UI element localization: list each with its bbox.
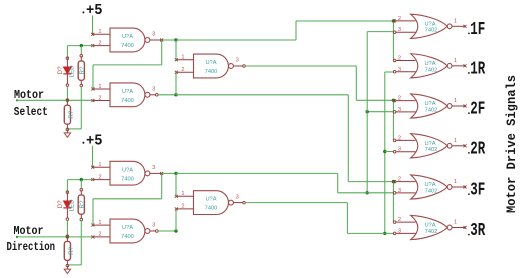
output net label 1F: [468, 20, 485, 40]
nor-gate U3A pin3 stub: [393, 31, 415, 34]
wire C-out to NOR3 pin2: [356, 99, 393, 101]
nand-gate U2B (mid-left lower) output bubble: [145, 229, 150, 234]
svg-text:1: 1: [181, 55, 184, 61]
node Motor Drive Signals vertical label: [504, 75, 519, 213]
nand-gate U2B (mid-left lower) body: [110, 219, 145, 243]
svg-text:U?A: U?A: [122, 89, 133, 95]
nand-gate U1A (top-left) body: [110, 28, 145, 52]
svg-text:7400: 7400: [121, 43, 134, 49]
nand-gate U1B (mid-left upper) pin1 stub: [91, 88, 110, 91]
wire: [175, 209, 177, 231]
nand-gate U2A (bottom-left) output bubble: [145, 171, 150, 176]
+5 supply P1 label: [82, 3, 102, 19]
nor-gate U3D value 7402: [425, 147, 438, 153]
nor-gate U3F pin2 stub: [393, 221, 415, 224]
wire: [80, 220, 82, 265]
wire: [66, 46, 68, 59]
nor-gate U3C output bubble: [447, 104, 452, 109]
nor-gate U3A name U?A: [424, 21, 435, 27]
nand-gate U2C (center lower) value 7400: [205, 206, 218, 212]
wire: [92, 199, 94, 225]
nand-gate U2A (bottom-left) value 7400: [121, 176, 134, 182]
resistor R1 body: [78, 61, 84, 80]
nor-gate U3F output bubble: [447, 225, 452, 230]
nor-gate U3B body: [411, 54, 448, 78]
nand-gate U2B (mid-left lower) value 7400: [121, 234, 134, 240]
svg-text:1: 1: [454, 138, 457, 144]
nor-gate U3F pin3 stub: [393, 232, 415, 235]
wire: [162, 39, 176, 41]
wire: [158, 94, 176, 96]
svg-text:3R: 3R: [470, 221, 485, 241]
svg-text:1: 1: [454, 179, 457, 185]
nor-gate U3A value 7402: [425, 28, 438, 34]
wire: [80, 46, 82, 56]
junction: [66, 235, 69, 238]
wire D-out to NOR5 pin3: [338, 192, 394, 194]
svg-text:1F: 1F: [470, 20, 485, 40]
svg-text:1: 1: [98, 84, 101, 90]
svg-text:U?A: U?A: [424, 21, 435, 27]
nand-gate U1B (mid-left upper) body: [110, 83, 145, 107]
output net label 3R: [468, 221, 485, 241]
resistor R4 value R?: [68, 246, 75, 254]
nand-gate U1B (mid-left upper) output bubble: [145, 92, 150, 97]
nand-gate U1B (mid-left upper) value 7400: [121, 98, 134, 104]
nand-gate U1A (top-left) pin labels: [98, 29, 155, 46]
svg-text:3: 3: [236, 194, 239, 200]
wire F-out vertical bus: [384, 72, 386, 233]
LED D2 triangle and cathode bar: [63, 201, 71, 208]
nor-gate U3F pin labels: [398, 217, 457, 234]
svg-text:2: 2: [98, 40, 101, 46]
nor-gate U3A body: [411, 14, 448, 38]
svg-text:3: 3: [398, 188, 401, 194]
wire: [66, 180, 68, 193]
resistor R2 value R?: [68, 110, 75, 118]
wire: [66, 220, 68, 237]
nor-gate U3A pin labels: [398, 16, 457, 33]
+5 supply P2 pin wire: [92, 146, 94, 167]
svg-text:3: 3: [152, 165, 155, 171]
wire NOR5 input tie: [392, 182, 394, 193]
junction: [383, 150, 386, 153]
wire NOR5 tie extension down to NOR6 pin2: [392, 193, 394, 222]
nor-gate U3E pin labels: [398, 177, 457, 194]
svg-text:1: 1: [454, 98, 457, 104]
svg-text:2: 2: [398, 177, 401, 183]
nand-gate U1A (top-left) pin1 stub: [91, 33, 110, 36]
nor-gate U3F name U?A: [424, 223, 435, 229]
svg-text:Motor: Motor: [14, 88, 44, 102]
svg-text:U?A: U?A: [122, 34, 133, 40]
nand-gate U2C (center lower) name U?A: [205, 197, 216, 203]
nor-gate U3B output stub pin 1: [452, 64, 467, 67]
junction: [80, 178, 83, 181]
wire: [162, 172, 176, 174]
svg-text:2: 2: [98, 95, 101, 101]
wire: [175, 173, 177, 196]
nand-gate U2A (bottom-left) name U?A: [122, 167, 133, 173]
wire: [66, 86, 68, 100]
wire: [80, 86, 82, 129]
nor-gate U3A output stub pin 1: [452, 25, 467, 28]
nand-gate U1B (mid-left upper) name U?A: [122, 89, 133, 95]
svg-text:3: 3: [236, 58, 239, 64]
svg-text:D?: D?: [57, 66, 64, 74]
wire: [158, 230, 176, 232]
wire: [67, 45, 92, 47]
nand-gate U2A (bottom-left) pin2 stub: [91, 178, 110, 181]
svg-text:1: 1: [98, 220, 101, 226]
LED D2 pins: [66, 191, 69, 221]
nor-gate U3E value 7402: [425, 188, 438, 194]
svg-text:R?: R?: [79, 200, 86, 208]
output net label 1R: [468, 60, 485, 80]
svg-text:2: 2: [398, 217, 401, 223]
nand-gate U1A (top-left) output stub pin 3: [150, 39, 163, 42]
nand-gate U2C (center lower) body: [194, 191, 229, 215]
nor-gate U3E output stub pin 1: [452, 186, 467, 189]
svg-text:7402: 7402: [425, 147, 438, 153]
wire B-out vertical drop: [347, 95, 349, 182]
svg-text:LED: LED: [69, 65, 76, 78]
nand-gate U1C (center upper) pin2 stub: [175, 71, 194, 74]
nand-gate U2C (center lower) pin labels: [181, 191, 238, 210]
nand-gate U1B (mid-left upper) pin2 stub: [91, 99, 110, 102]
wire NOR3 pin3 horizontal: [367, 111, 393, 113]
nand-gate U1C (center upper) body: [194, 54, 229, 78]
wire: [93, 64, 162, 66]
nand-gate U1C (center upper) value 7400: [205, 69, 218, 75]
wire A-out long horizontal: [176, 39, 296, 41]
junction: [383, 232, 386, 235]
nor-gate U3B pin labels: [398, 55, 457, 72]
wire Motor Direction: [16, 236, 93, 238]
junction: [174, 172, 177, 175]
svg-text:3: 3: [398, 147, 401, 153]
nand-gate U1C (center upper) name U?A: [205, 60, 216, 66]
LED D1 value label LED: [69, 65, 76, 78]
svg-text:3: 3: [398, 67, 401, 73]
wire: [67, 179, 92, 181]
junction: [66, 99, 69, 102]
svg-text:R?: R?: [68, 110, 75, 118]
svg-text:U?A: U?A: [424, 101, 435, 107]
svg-text:U?A: U?A: [424, 223, 435, 229]
junction: [366, 110, 369, 113]
nand-gate U1C (center upper) pin labels: [181, 55, 238, 73]
svg-text:Motor Drive Signals: Motor Drive Signals: [504, 75, 519, 213]
nor-gate U3B pin2 stub: [393, 59, 415, 62]
svg-text:7402: 7402: [425, 229, 438, 235]
wire A-out drop to NOR2 pin2: [392, 21, 394, 60]
svg-text:Select: Select: [14, 105, 48, 119]
svg-text:Motor: Motor: [14, 224, 44, 238]
wire A-out riser: [295, 21, 297, 40]
wire mid vertical bus (C-out riser to NOR1 pin3 / down to NOR5 row): [366, 32, 368, 193]
resistor R2 body: [64, 105, 70, 124]
wire C-out long horizontal: [245, 65, 357, 67]
nor-gate U3C pin labels: [398, 96, 457, 113]
svg-text:7402: 7402: [425, 188, 438, 194]
svg-text:2: 2: [398, 96, 401, 102]
nor-gate U3E pin2 stub: [393, 180, 415, 183]
svg-text:2: 2: [398, 55, 401, 61]
wire NOR4 pin3 horizontal: [385, 151, 394, 153]
wire NOR3 input tie: [392, 100, 394, 111]
wire: [80, 180, 82, 190]
wire: [161, 40, 163, 65]
svg-text:3: 3: [398, 107, 401, 113]
svg-text:2: 2: [398, 16, 401, 22]
nor-gate U3C value 7402: [425, 107, 438, 113]
resistor R1 pins: [80, 54, 83, 86]
nand-gate U2B (mid-left lower) name U?A: [122, 225, 133, 231]
+5 supply P1 pin wire: [92, 16, 94, 35]
svg-text:7400: 7400: [121, 234, 134, 240]
svg-text:7400: 7400: [205, 69, 218, 75]
nor-gate U3C pin3 stub: [393, 111, 415, 114]
wire: [67, 264, 81, 266]
svg-text:1: 1: [181, 191, 184, 197]
junction: [392, 99, 395, 102]
resistor R3 pins: [80, 188, 83, 220]
nand-gate U1A (top-left) name U?A: [122, 34, 133, 40]
wire D-out vertical drop: [337, 173, 339, 192]
resistor R3 body: [78, 195, 84, 214]
wire: [175, 72, 177, 95]
nor-gate U3C name U?A: [424, 101, 435, 107]
svg-text:1: 1: [454, 18, 457, 24]
svg-text:7402: 7402: [425, 107, 438, 113]
nand-gate U1B (mid-left upper) pin labels: [98, 84, 155, 102]
svg-text:U?A: U?A: [424, 141, 435, 147]
LED D1 triangle and cathode bar: [63, 67, 71, 74]
resistor R1 value R?: [79, 66, 86, 74]
wire B-out to NOR5 pin2: [348, 181, 393, 183]
wire NOR1 pin3 horizontal: [367, 31, 393, 33]
nor-gate U3D output bubble: [447, 143, 452, 148]
svg-text:7400: 7400: [121, 98, 134, 104]
svg-text:2: 2: [181, 204, 184, 210]
wire C-out vertical drop: [355, 66, 357, 100]
svg-text:LED: LED: [69, 199, 76, 212]
nor-gate U3D name U?A: [424, 141, 435, 147]
wire F-out vertical drop: [346, 203, 348, 234]
nor-gate U3B output bubble: [447, 63, 452, 68]
nand-gate U2B (mid-left lower) pin1 stub: [91, 224, 110, 227]
nor-gate U3F value 7402: [425, 229, 438, 235]
wire: [175, 40, 177, 60]
nor-gate U3D output stub pin 1: [452, 144, 467, 147]
wire D-out long horizontal: [176, 172, 338, 174]
wire F-out to NOR6 pin3: [347, 232, 393, 234]
output net label 3F: [468, 181, 485, 201]
svg-text:3: 3: [152, 87, 155, 93]
svg-text:1: 1: [98, 29, 101, 35]
junction: [174, 229, 177, 232]
svg-text:1: 1: [98, 162, 101, 168]
wire: [92, 65, 94, 89]
svg-text:+5: +5: [86, 3, 103, 19]
nor-gate U3E body: [411, 175, 448, 199]
nor-gate U3F body: [411, 215, 448, 239]
wire NOR3 tie extension down to NOR4 pin2: [392, 112, 394, 141]
svg-text:U?A: U?A: [205, 197, 216, 203]
svg-text:1: 1: [454, 58, 457, 64]
svg-text:U?A: U?A: [205, 60, 216, 66]
junction: [174, 38, 177, 41]
svg-text:U?A: U?A: [122, 225, 133, 231]
wire Motor Select: [16, 99, 93, 101]
nor-gate U3D pin labels: [398, 135, 457, 152]
nor-gate U3F output stub pin 1: [452, 226, 467, 229]
junction: [174, 93, 177, 96]
nor-gate U3E output bubble: [447, 185, 452, 190]
junction: [80, 44, 83, 47]
nand-gate U2C (center lower) output bubble: [229, 200, 234, 205]
nand-gate U1C (center upper) output stub pin 3: [233, 65, 245, 68]
node Motor Direction label: [7, 224, 56, 254]
resistor R4 pins: [66, 235, 69, 267]
svg-text:7402: 7402: [425, 67, 438, 73]
wire: [93, 198, 162, 200]
nand-gate U2B (mid-left lower) pin2 stub: [91, 235, 110, 238]
svg-text:+5: +5: [86, 134, 103, 150]
svg-text:2: 2: [98, 232, 101, 238]
nor-gate U3E name U?A: [424, 182, 435, 188]
svg-text:3: 3: [398, 27, 401, 33]
svg-text:1R: 1R: [470, 60, 485, 80]
resistor R3 value R?: [79, 200, 86, 208]
svg-text:U?A: U?A: [122, 167, 133, 173]
nand-gate U2C (center lower) pin2 stub: [175, 207, 194, 210]
wire NOR2 pin3 corner: [385, 71, 394, 73]
resistor R2 pins: [66, 99, 69, 131]
nand-gate U1A (top-left) value 7400: [121, 43, 134, 49]
svg-text:7400: 7400: [121, 176, 134, 182]
svg-text:U?A: U?A: [424, 182, 435, 188]
svg-text:Direction: Direction: [7, 240, 56, 254]
nand-gate U2A (bottom-left) pin1 stub: [91, 166, 110, 169]
LED D2 name D?: [57, 200, 64, 208]
LED D1 pins: [66, 57, 69, 87]
nand-gate U2A (bottom-left) body: [110, 161, 145, 185]
wire: [67, 128, 81, 130]
nor-gate U3E pin3 stub: [393, 192, 415, 195]
svg-text:2R: 2R: [470, 140, 485, 160]
svg-text:3F: 3F: [470, 181, 485, 201]
nand-gate U1C (center upper) output bubble: [229, 64, 234, 69]
svg-text:D?: D?: [57, 200, 64, 208]
nand-gate U2B (mid-left lower) pin labels: [98, 220, 155, 238]
nor-gate U3A pin2 stub: [393, 20, 415, 23]
nor-gate U3B value 7402: [425, 67, 438, 73]
nand-gate U1A (top-left) output bubble: [145, 38, 150, 43]
svg-text:1: 1: [454, 220, 457, 226]
nor-gate U3D pin2 stub: [393, 139, 415, 142]
nand-gate U2A (bottom-left) pin labels: [98, 162, 155, 180]
nand-gate U1A (top-left) pin2 stub: [91, 44, 110, 47]
output net label 2F: [468, 100, 485, 120]
junction: [392, 180, 395, 183]
svg-text:3: 3: [152, 32, 155, 38]
nor-gate U3C body: [411, 94, 448, 118]
svg-text:R?: R?: [79, 66, 86, 74]
ground GND1: [64, 130, 70, 138]
nor-gate U3D pin3 stub: [393, 150, 415, 153]
nand-gate U2B (mid-left lower) output stub pin 3: [150, 230, 158, 233]
wire B-out long horizontal: [176, 94, 348, 96]
nor-gate U3C pin2 stub: [393, 99, 415, 102]
resistor R4 body: [64, 241, 70, 260]
nand-gate U1C (center upper) pin1 stub: [175, 58, 194, 61]
wire F-out long horizontal: [245, 202, 348, 204]
ground GND2: [64, 266, 70, 274]
+5 supply P2 label: [82, 134, 102, 150]
svg-text:7400: 7400: [205, 206, 218, 212]
nor-gate U3A output bubble: [447, 24, 452, 29]
node Motor Select label: [14, 88, 48, 119]
nand-gate U2A (bottom-left) output stub pin 3: [150, 172, 163, 175]
wire: [161, 173, 163, 198]
output net label 2R: [468, 140, 485, 160]
nor-gate U3B pin3 stub: [393, 70, 415, 73]
junction: [392, 19, 395, 22]
svg-text:R?: R?: [68, 246, 75, 254]
wire A-out top horizontal to NOR1 pin2: [296, 20, 393, 22]
svg-text:U?A: U?A: [424, 61, 435, 67]
nor-gate U3B name U?A: [424, 61, 435, 67]
nand-gate U2C (center lower) output stub pin 3: [233, 201, 245, 204]
svg-text:2F: 2F: [470, 100, 485, 120]
svg-text:3: 3: [398, 228, 401, 234]
nor-gate U3C output stub pin 1: [452, 105, 467, 108]
svg-text:7402: 7402: [425, 28, 438, 34]
nand-gate U1B (mid-left upper) output stub pin 3: [150, 94, 158, 97]
svg-text:2: 2: [398, 135, 401, 141]
svg-text:2: 2: [181, 67, 184, 73]
LED D2 value label LED: [69, 199, 76, 212]
nor-gate U3D body: [411, 134, 448, 158]
LED D1 name D?: [57, 66, 64, 74]
svg-text:2: 2: [98, 174, 101, 180]
nand-gate U2C (center lower) pin1 stub: [175, 195, 194, 198]
junction: [366, 191, 369, 194]
svg-text:3: 3: [152, 223, 155, 229]
